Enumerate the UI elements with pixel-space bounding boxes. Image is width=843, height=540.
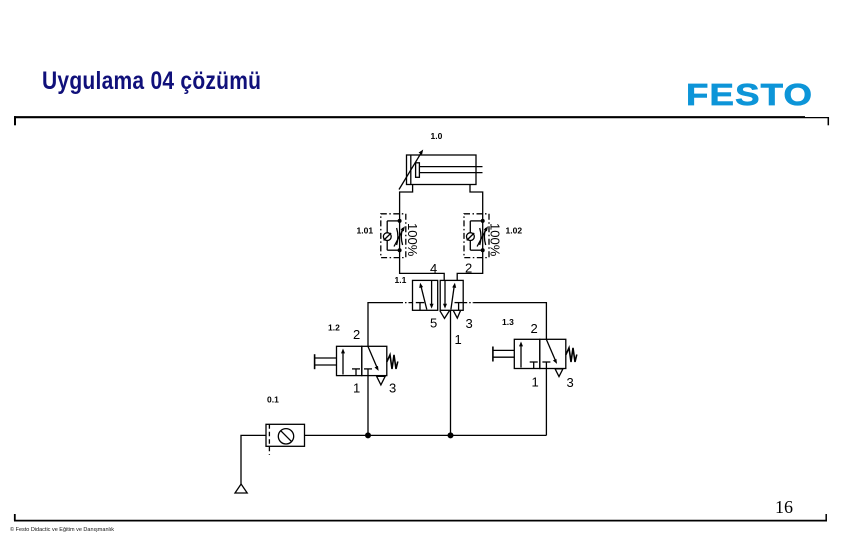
svg-text:1.2: 1.2 bbox=[328, 323, 340, 333]
valve 1.2 (3/2 way pushbutton) bbox=[337, 346, 387, 375]
valve 1.1 (5/2 way) bbox=[413, 280, 464, 310]
pilot line right (to 1.3) bbox=[463, 303, 546, 340]
svg-text:5: 5 bbox=[430, 316, 437, 331]
bottom supply wire bbox=[305, 434, 547, 436]
cylinder stroke-adjust arrow bbox=[399, 150, 423, 190]
svg-text:1.1: 1.1 bbox=[395, 275, 407, 285]
wire 1.2 port 1 down bbox=[367, 376, 369, 436]
svg-text:2: 2 bbox=[353, 327, 360, 342]
svg-text:1.0: 1.0 bbox=[431, 131, 443, 141]
wire 1.01 to valve 1.1 port 4 bbox=[400, 250, 445, 280]
spring 1.2 bbox=[387, 355, 398, 369]
flow control valve 1.01 bbox=[381, 214, 406, 258]
svg-text:2: 2 bbox=[465, 261, 472, 276]
top rule bbox=[14, 116, 829, 125]
svg-text:100%: 100% bbox=[405, 223, 420, 257]
svg-text:1.02: 1.02 bbox=[506, 226, 523, 236]
pilot line left (to 1.2) bbox=[368, 303, 413, 347]
svg-text:1.3: 1.3 bbox=[502, 317, 514, 327]
wire cylinder right port to 1.02 bbox=[470, 185, 483, 221]
svg-text:1: 1 bbox=[532, 374, 539, 389]
spring 1.3 bbox=[566, 348, 577, 362]
bottom rule bbox=[14, 514, 827, 521]
supply line valve 1.1 port 1 bbox=[450, 310, 452, 435]
svg-text:1.01: 1.01 bbox=[357, 226, 374, 236]
valve 1.3 (3/2 way pushbutton) bbox=[514, 339, 566, 368]
wire 1.3 port 1 down bbox=[545, 369, 547, 436]
junction node (1.1 supply) bbox=[448, 432, 454, 438]
svg-text:1: 1 bbox=[353, 381, 360, 396]
air service unit 0.1 bbox=[266, 424, 305, 455]
svg-text:4: 4 bbox=[430, 261, 437, 276]
supply inlet wire and source triangle bbox=[235, 435, 266, 493]
svg-text:100%: 100% bbox=[488, 223, 503, 257]
exhaust triangle 1.2 port 3 bbox=[377, 376, 386, 385]
pushbutton 1.3 bbox=[493, 347, 514, 362]
junction node (1.2 supply) bbox=[365, 432, 371, 438]
footer copyright bbox=[10, 527, 114, 533]
wire 1.02 to valve 1.1 port 2 bbox=[457, 250, 483, 280]
FESTO logo bbox=[686, 77, 813, 113]
flow control valve 1.02 bbox=[464, 214, 489, 258]
cylinder 1.0 bbox=[407, 155, 483, 185]
svg-text:0.1: 0.1 bbox=[267, 394, 279, 404]
title bbox=[42, 68, 261, 96]
svg-text:1: 1 bbox=[455, 332, 462, 347]
svg-text:3: 3 bbox=[466, 316, 473, 331]
exhaust V port 3 bbox=[453, 311, 460, 319]
svg-text:3: 3 bbox=[567, 375, 574, 390]
exhaust V port 5 bbox=[440, 311, 450, 319]
page number bbox=[775, 497, 793, 518]
exhaust triangle 1.3 port 3 bbox=[555, 369, 563, 377]
svg-text:2: 2 bbox=[531, 321, 538, 336]
pushbutton 1.2 bbox=[315, 354, 337, 369]
svg-text:3: 3 bbox=[389, 381, 396, 396]
wire cylinder left port to 1.01 bbox=[400, 185, 413, 221]
